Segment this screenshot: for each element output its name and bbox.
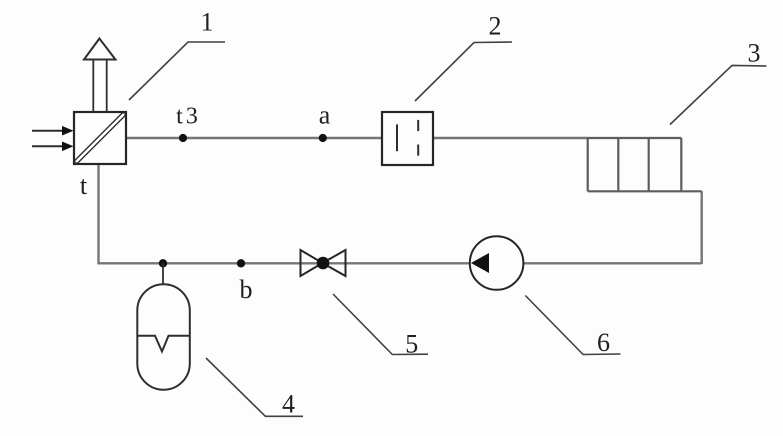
leader line 6 bbox=[525, 296, 620, 355]
wire bottom pipe left segment bbox=[98, 262, 471, 264]
node t3 dot bbox=[179, 134, 187, 142]
svg-text:t3: t3 bbox=[176, 104, 201, 130]
pump P6 circle bbox=[470, 236, 524, 290]
svg-text:3: 3 bbox=[748, 39, 761, 68]
valve V5 left triangle bbox=[301, 250, 323, 276]
expansion tank T4 stub wire bbox=[162, 263, 164, 285]
hollow up arrow (exhaust) shaft bbox=[93, 59, 106, 112]
leader line 1 bbox=[129, 42, 225, 100]
node a dot bbox=[319, 134, 327, 142]
svg-text:t: t bbox=[80, 171, 88, 200]
input arrow lower bbox=[32, 142, 74, 152]
pump P6 impeller triangle bbox=[471, 253, 489, 273]
wire top pipe left segment bbox=[126, 137, 382, 139]
wire top pipe middle segment bbox=[433, 137, 588, 139]
radiator U3 bbox=[588, 138, 702, 192]
leader line 2 bbox=[415, 42, 512, 101]
svg-text:6: 6 bbox=[597, 328, 610, 357]
leader line 3 bbox=[670, 65, 767, 124]
svg-text:a: a bbox=[319, 101, 331, 130]
node tank junction dot bbox=[159, 259, 167, 267]
wire bottom pipe right segment bbox=[523, 262, 702, 264]
filter box inner dashed line bbox=[417, 120, 419, 156]
svg-text:1: 1 bbox=[201, 8, 214, 37]
heat exchanger diagonal double line bbox=[76, 114, 125, 163]
wire right vertical pipe bbox=[701, 191, 703, 264]
filter box U2 bbox=[382, 112, 433, 165]
expansion tank T4 body bbox=[137, 284, 190, 390]
valve V5 center dot bbox=[317, 257, 330, 270]
heat exchanger U1 box bbox=[74, 112, 126, 164]
expansion tank membrane line with notch bbox=[137, 336, 190, 352]
node b dot bbox=[237, 259, 245, 267]
svg-text:b: b bbox=[240, 275, 253, 304]
svg-text:5: 5 bbox=[405, 330, 418, 359]
wire left vertical pipe bbox=[97, 164, 99, 264]
svg-text:2: 2 bbox=[489, 12, 502, 41]
leader line 5 bbox=[333, 294, 428, 355]
filter box inner solid line bbox=[396, 124, 398, 151]
svg-text:4: 4 bbox=[282, 390, 295, 419]
input arrow upper bbox=[32, 126, 74, 136]
leader line 4 bbox=[206, 358, 303, 416]
valve V5 right triangle bbox=[323, 250, 346, 276]
hollow up arrow head bbox=[84, 39, 116, 60]
